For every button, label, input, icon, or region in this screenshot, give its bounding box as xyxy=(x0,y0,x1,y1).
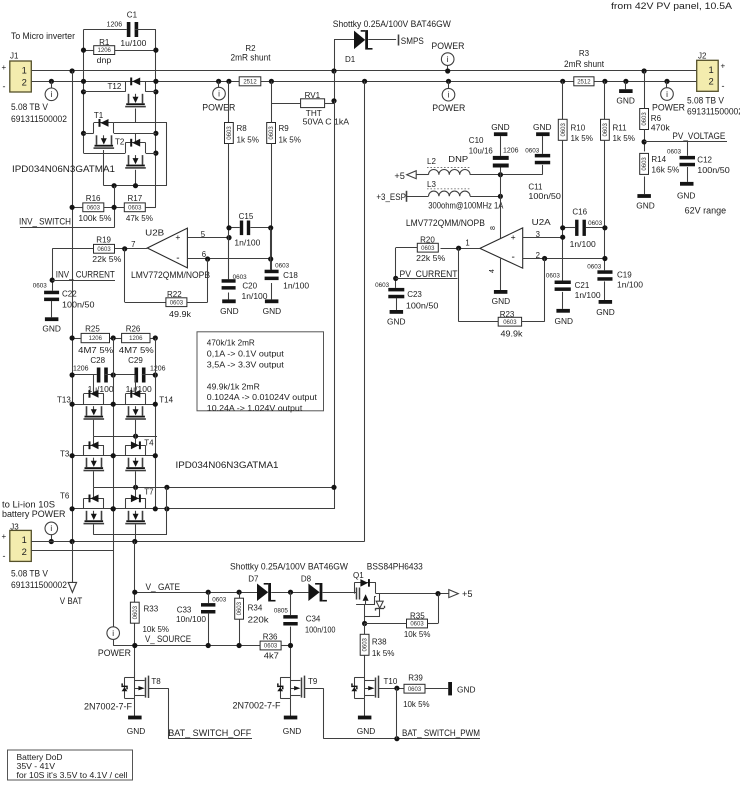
svg-text:62V range: 62V range xyxy=(685,206,727,216)
svg-text:1k 5%: 1k 5% xyxy=(279,136,302,145)
svg-text:LMV772QMM/NOPB: LMV772QMM/NOPB xyxy=(406,218,485,228)
svg-text:+5: +5 xyxy=(394,171,405,181)
svg-text:GND: GND xyxy=(492,296,511,306)
svg-text:0603: 0603 xyxy=(561,122,567,136)
svg-text:V BAT: V BAT xyxy=(60,596,83,606)
svg-text:i: i xyxy=(666,90,668,99)
svg-text:GND: GND xyxy=(220,306,239,316)
svg-text:GND: GND xyxy=(616,96,635,106)
svg-text:49.9k: 49.9k xyxy=(501,330,524,339)
svg-text:10.24A -> 1.024V output: 10.24A -> 1.024V output xyxy=(207,403,303,413)
svg-text:R6: R6 xyxy=(651,114,662,123)
svg-text:220k: 220k xyxy=(248,616,270,625)
svg-text:i: i xyxy=(50,90,52,99)
svg-text:1k 5%: 1k 5% xyxy=(571,134,594,143)
svg-text:49.9k/1k 2mR: 49.9k/1k 2mR xyxy=(207,382,260,392)
svg-text:-: - xyxy=(176,253,179,264)
svg-text:i: i xyxy=(218,89,220,98)
svg-text:R17: R17 xyxy=(128,194,143,203)
svg-text:+5: +5 xyxy=(462,589,473,599)
svg-text:D7: D7 xyxy=(248,575,259,584)
svg-text:Q1: Q1 xyxy=(353,571,364,580)
svg-text:GND: GND xyxy=(263,306,282,316)
svg-text:-: - xyxy=(512,252,515,263)
svg-text:1206: 1206 xyxy=(89,336,103,342)
svg-text:4k7: 4k7 xyxy=(264,652,280,661)
svg-text:C33: C33 xyxy=(177,605,192,614)
svg-text:C18: C18 xyxy=(283,271,298,280)
svg-text:POWER: POWER xyxy=(432,103,465,113)
svg-text:POWER: POWER xyxy=(98,648,131,658)
svg-text:T2: T2 xyxy=(115,138,125,147)
svg-text:INV_ SWITCH: INV_ SWITCH xyxy=(19,217,71,227)
svg-text:C21: C21 xyxy=(575,281,590,290)
svg-text:V_ SOURCE: V_ SOURCE xyxy=(145,634,191,644)
svg-text:i: i xyxy=(50,524,52,533)
svg-text:GND: GND xyxy=(533,122,552,132)
svg-text:D1: D1 xyxy=(345,55,356,64)
svg-text:0603: 0603 xyxy=(133,605,139,619)
svg-text:Shottky 0.25A/100V BAT46GW: Shottky 0.25A/100V BAT46GW xyxy=(333,19,451,29)
svg-text:0603: 0603 xyxy=(275,263,290,270)
svg-text:GND: GND xyxy=(677,191,696,201)
svg-text:0805: 0805 xyxy=(274,608,289,615)
svg-text:100k 5%: 100k 5% xyxy=(78,214,111,223)
svg-text:691311500002: 691311500002 xyxy=(11,114,67,124)
svg-text:GND: GND xyxy=(127,726,146,736)
svg-text:i: i xyxy=(447,55,449,64)
svg-text:U2A: U2A xyxy=(532,217,551,227)
svg-text:1206: 1206 xyxy=(107,22,123,29)
svg-text:C15: C15 xyxy=(239,212,254,221)
svg-text:0603: 0603 xyxy=(97,247,111,253)
svg-text:1n/100: 1n/100 xyxy=(283,282,310,291)
svg-text:0603: 0603 xyxy=(603,122,609,136)
svg-text:PV_CURRENT: PV_CURRENT xyxy=(400,269,458,279)
svg-text:C20: C20 xyxy=(242,282,257,291)
svg-text:1k 5%: 1k 5% xyxy=(237,136,260,145)
svg-text:1u/100: 1u/100 xyxy=(120,39,147,48)
svg-text:7: 7 xyxy=(131,240,135,249)
svg-text:from 42V PV panel, 10.5A: from 42V PV panel, 10.5A xyxy=(611,1,732,11)
svg-text:0.1024A -> 0.01024V output: 0.1024A -> 0.01024V output xyxy=(207,392,318,402)
svg-text:0603: 0603 xyxy=(667,149,682,156)
svg-text:+: + xyxy=(511,232,516,242)
svg-text:47k 5%: 47k 5% xyxy=(126,214,153,223)
svg-text:3,5A -> 3.3V output: 3,5A -> 3.3V output xyxy=(207,360,285,370)
svg-text:+3_ESP: +3_ESP xyxy=(376,192,406,202)
svg-text:0603: 0603 xyxy=(375,282,390,289)
svg-text:8: 8 xyxy=(490,226,497,230)
svg-text:C19: C19 xyxy=(617,270,632,279)
svg-text:100n/100: 100n/100 xyxy=(305,626,336,635)
svg-text:0603: 0603 xyxy=(421,246,435,252)
svg-text:10k 5%: 10k 5% xyxy=(404,630,431,639)
svg-text:C12: C12 xyxy=(697,156,712,165)
svg-text:R11: R11 xyxy=(613,124,628,133)
svg-text:10u/16: 10u/16 xyxy=(469,147,494,156)
svg-text:J2: J2 xyxy=(698,52,707,61)
svg-text:D8: D8 xyxy=(301,575,312,584)
svg-text:0603: 0603 xyxy=(237,601,243,615)
svg-text:5.08 TB V: 5.08 TB V xyxy=(11,102,48,112)
svg-text:4: 4 xyxy=(489,269,496,273)
svg-text:battery POWER: battery POWER xyxy=(2,509,66,519)
svg-text:C29: C29 xyxy=(128,356,143,365)
svg-text:R16: R16 xyxy=(86,194,101,203)
svg-text:C11: C11 xyxy=(528,183,543,192)
svg-text:1n/100: 1n/100 xyxy=(234,238,261,247)
svg-text:L3: L3 xyxy=(427,180,436,189)
svg-text:R10: R10 xyxy=(571,124,586,133)
svg-text:i: i xyxy=(448,91,450,100)
svg-text:1k 5%: 1k 5% xyxy=(613,134,636,143)
svg-text:2512: 2512 xyxy=(577,79,591,85)
svg-text:1: 1 xyxy=(708,64,713,75)
svg-text:1n/100: 1n/100 xyxy=(575,291,602,300)
svg-text:T14: T14 xyxy=(159,396,173,405)
svg-text:0603: 0603 xyxy=(363,637,369,651)
svg-text:R14: R14 xyxy=(651,155,666,164)
svg-text:10k 5%: 10k 5% xyxy=(403,700,430,709)
svg-text:49.9k: 49.9k xyxy=(169,310,192,319)
svg-text:to Li-ion 10S: to Li-ion 10S xyxy=(2,499,55,509)
svg-text:T13: T13 xyxy=(57,396,71,405)
svg-text:BAT_ SWITCH_PWM: BAT_ SWITCH_PWM xyxy=(402,728,480,738)
svg-text:2: 2 xyxy=(708,76,713,87)
svg-text:R36: R36 xyxy=(263,633,278,642)
svg-text:dnp: dnp xyxy=(97,56,112,65)
svg-text:1: 1 xyxy=(22,65,27,76)
svg-text:1206: 1206 xyxy=(503,148,519,155)
svg-text:GND: GND xyxy=(636,201,655,211)
svg-text:Shottky 0.25A/100V BAT46GW: Shottky 0.25A/100V BAT46GW xyxy=(230,562,348,572)
svg-text:To Micro inverter: To Micro inverter xyxy=(11,31,75,41)
svg-text:C34: C34 xyxy=(306,615,321,624)
svg-text:1n/100: 1n/100 xyxy=(617,280,644,289)
svg-text:POWER: POWER xyxy=(202,103,235,113)
svg-text:+: + xyxy=(2,63,7,72)
svg-text:IPD034N06N3GATMA1: IPD034N06N3GATMA1 xyxy=(176,460,279,470)
svg-text:C28: C28 xyxy=(90,356,105,365)
svg-text:T7: T7 xyxy=(144,488,154,497)
svg-text:470k/1k 2mR: 470k/1k 2mR xyxy=(207,338,255,348)
svg-text:-: - xyxy=(722,81,725,91)
svg-text:1: 1 xyxy=(22,534,27,545)
svg-text:1u/100: 1u/100 xyxy=(88,385,115,394)
svg-text:IPD034N06N3GATMA1: IPD034N06N3GATMA1 xyxy=(12,164,115,174)
svg-text:R33: R33 xyxy=(144,605,159,614)
svg-text:300ohm@100MHz 1A: 300ohm@100MHz 1A xyxy=(428,201,503,211)
svg-text:T3: T3 xyxy=(60,450,70,459)
svg-text:0603: 0603 xyxy=(588,220,603,227)
svg-text:C10: C10 xyxy=(469,136,484,145)
svg-text:1206: 1206 xyxy=(98,48,112,54)
svg-text:i: i xyxy=(112,629,114,638)
svg-text:1k 5%: 1k 5% xyxy=(372,649,395,658)
svg-text:GND: GND xyxy=(357,726,376,736)
svg-text:C22: C22 xyxy=(62,290,77,299)
svg-text:GND: GND xyxy=(596,307,615,317)
svg-text:0603: 0603 xyxy=(33,282,48,289)
svg-text:R39: R39 xyxy=(408,674,423,683)
svg-text:1n/100: 1n/100 xyxy=(242,292,269,301)
svg-text:2mR shunt: 2mR shunt xyxy=(564,59,604,69)
svg-text:C16: C16 xyxy=(572,207,587,216)
svg-text:T12: T12 xyxy=(108,82,122,91)
svg-text:DNP: DNP xyxy=(448,154,468,164)
svg-text:R19: R19 xyxy=(96,236,111,245)
svg-text:100n/50: 100n/50 xyxy=(62,301,95,310)
svg-text:0603: 0603 xyxy=(525,148,540,155)
svg-text:R3: R3 xyxy=(579,49,590,58)
svg-text:5.08 TB V: 5.08 TB V xyxy=(11,569,48,579)
svg-text:2N7002-7-F: 2N7002-7-F xyxy=(84,702,132,712)
svg-text:+: + xyxy=(2,532,7,541)
svg-text:POWER: POWER xyxy=(431,41,464,51)
svg-text:2512: 2512 xyxy=(243,79,257,85)
svg-text:1: 1 xyxy=(465,239,469,248)
svg-text:T6: T6 xyxy=(60,492,70,501)
svg-text:100n/50: 100n/50 xyxy=(528,192,561,201)
svg-text:0603: 0603 xyxy=(546,272,561,279)
svg-text:BAT_ SWITCH_OFF: BAT_ SWITCH_OFF xyxy=(168,728,251,738)
svg-text:GND: GND xyxy=(457,685,476,695)
svg-text:0603: 0603 xyxy=(642,157,648,171)
svg-text:1206: 1206 xyxy=(129,336,143,342)
svg-text:16k 5%: 16k 5% xyxy=(651,166,679,175)
svg-text:0603: 0603 xyxy=(170,300,184,306)
svg-text:0603: 0603 xyxy=(642,112,648,126)
svg-text:GND: GND xyxy=(283,726,302,736)
svg-text:10n/100: 10n/100 xyxy=(176,615,207,624)
svg-text:+: + xyxy=(175,232,180,242)
svg-text:50VA C 1kA: 50VA C 1kA xyxy=(303,118,350,127)
svg-text:1206: 1206 xyxy=(73,365,89,372)
svg-text:691311500002: 691311500002 xyxy=(687,107,740,117)
svg-text:J1: J1 xyxy=(10,52,19,61)
svg-text:1206: 1206 xyxy=(150,365,166,372)
svg-text:0603: 0603 xyxy=(503,320,517,326)
svg-text:SMPS: SMPS xyxy=(401,36,424,46)
svg-text:C1: C1 xyxy=(127,11,138,20)
svg-text:470k: 470k xyxy=(651,124,671,133)
svg-text:GND: GND xyxy=(555,316,574,326)
svg-text:0603: 0603 xyxy=(269,126,275,140)
svg-text:2mR shunt: 2mR shunt xyxy=(231,53,271,63)
svg-text:GND: GND xyxy=(42,324,61,334)
svg-text:2: 2 xyxy=(22,76,27,87)
svg-text:0603: 0603 xyxy=(87,205,101,211)
svg-text:+: + xyxy=(721,62,726,71)
svg-text:R26: R26 xyxy=(126,325,141,334)
svg-text:LMV772QMM/NOPB: LMV772QMM/NOPB xyxy=(131,270,210,280)
svg-text:5.08 TB V: 5.08 TB V xyxy=(687,96,724,106)
svg-text:T8: T8 xyxy=(151,677,161,686)
svg-text:R25: R25 xyxy=(85,325,100,334)
svg-text:691311500002: 691311500002 xyxy=(11,580,67,590)
svg-text:INV_ CURRENT: INV_ CURRENT xyxy=(56,270,115,280)
svg-text:0603: 0603 xyxy=(410,622,424,628)
svg-text:PV_VOLTAGE: PV_VOLTAGE xyxy=(672,131,725,141)
svg-text:R9: R9 xyxy=(279,124,290,133)
svg-text:BSS84PH6433: BSS84PH6433 xyxy=(367,562,423,572)
svg-text:0,1A -> 0.1V output: 0,1A -> 0.1V output xyxy=(207,349,285,359)
svg-text:-: - xyxy=(3,551,6,561)
svg-text:100n/50: 100n/50 xyxy=(697,166,730,175)
svg-text:POWER: POWER xyxy=(652,102,685,112)
svg-text:R8: R8 xyxy=(237,124,248,133)
svg-text:22k 5%: 22k 5% xyxy=(416,254,445,263)
svg-text:T10: T10 xyxy=(384,677,398,686)
svg-text:0603: 0603 xyxy=(264,644,278,650)
svg-text:for 10S it's 3.5V to 4.1V / ce: for 10S it's 3.5V to 4.1V / cell xyxy=(17,770,128,780)
svg-text:R38: R38 xyxy=(372,638,387,647)
svg-text:V_ GATE: V_ GATE xyxy=(146,582,181,592)
svg-text:GND: GND xyxy=(491,122,510,132)
svg-text:0603: 0603 xyxy=(227,126,233,140)
svg-text:10k 5%: 10k 5% xyxy=(143,625,170,634)
svg-text:U2B: U2B xyxy=(145,228,164,238)
svg-text:C23: C23 xyxy=(407,290,422,299)
svg-text:0603: 0603 xyxy=(587,263,602,270)
svg-text:-: - xyxy=(3,82,6,92)
svg-text:2N7002-7-F: 2N7002-7-F xyxy=(233,701,281,711)
svg-text:22k 5%: 22k 5% xyxy=(92,255,121,264)
svg-text:T9: T9 xyxy=(308,677,318,686)
svg-text:L2: L2 xyxy=(427,157,436,166)
svg-text:2: 2 xyxy=(22,546,27,557)
svg-text:4M7 5%: 4M7 5% xyxy=(78,346,113,355)
svg-text:T1: T1 xyxy=(94,111,104,120)
svg-text:1n/100: 1n/100 xyxy=(570,240,597,249)
svg-text:GND: GND xyxy=(387,317,406,327)
svg-text:4M7 5%: 4M7 5% xyxy=(119,346,154,355)
svg-text:100n/50: 100n/50 xyxy=(406,301,439,310)
svg-text:0603: 0603 xyxy=(128,205,142,211)
svg-text:0603: 0603 xyxy=(212,597,227,604)
svg-text:0603: 0603 xyxy=(408,687,422,693)
svg-text:R34: R34 xyxy=(248,604,263,613)
